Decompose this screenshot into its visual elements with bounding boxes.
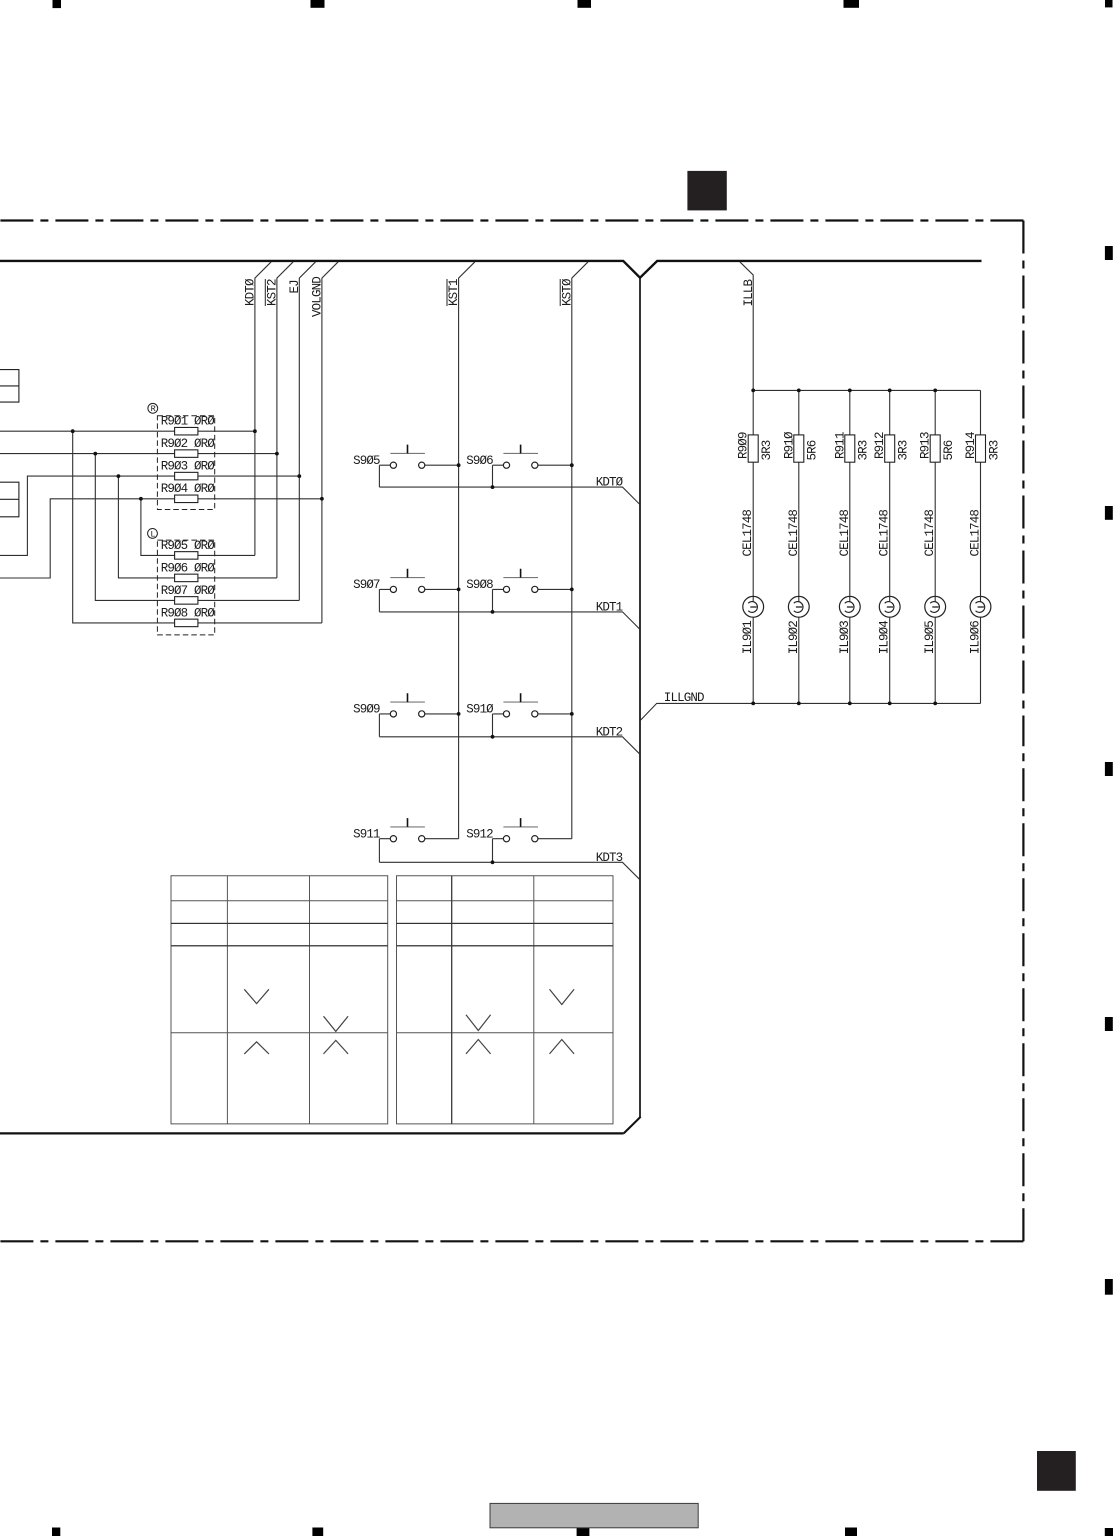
svg-text:3R3: 3R3 <box>760 440 774 460</box>
svg-text:5R6: 5R6 <box>806 440 820 460</box>
svg-text:S9Ø8: S9Ø8 <box>466 578 493 592</box>
svg-text:S911: S911 <box>353 827 380 841</box>
svg-text:KDT3: KDT3 <box>596 851 623 865</box>
svg-text:5R6: 5R6 <box>942 440 956 460</box>
svg-text:S9Ø6: S9Ø6 <box>466 454 493 468</box>
svg-text:CEL1748: CEL1748 <box>923 510 937 557</box>
svg-text:R9Ø8 ØRØ: R9Ø8 ØRØ <box>161 606 216 620</box>
svg-text:KDTØ: KDTØ <box>596 476 624 490</box>
svg-text:ILLGND: ILLGND <box>664 691 704 705</box>
svg-text:R914: R914 <box>964 432 978 459</box>
svg-text:CEL1748: CEL1748 <box>838 510 852 557</box>
svg-text:3R3: 3R3 <box>857 440 871 460</box>
svg-text:KST1: KST1 <box>447 279 461 306</box>
svg-text:R9Ø7 ØRØ: R9Ø7 ØRØ <box>161 584 216 598</box>
svg-text:IL9Ø6: IL9Ø6 <box>969 621 983 655</box>
svg-text:IL9Ø2: IL9Ø2 <box>787 621 801 655</box>
svg-text:R913: R913 <box>919 432 933 459</box>
svg-text:S9Ø5: S9Ø5 <box>353 454 380 468</box>
svg-text:S91Ø: S91Ø <box>466 703 494 717</box>
svg-text:R9Ø3 ØRØ: R9Ø3 ØRØ <box>161 460 216 474</box>
svg-text:CEL1748: CEL1748 <box>969 510 983 557</box>
svg-text:CEL1748: CEL1748 <box>741 510 755 557</box>
svg-text:R911: R911 <box>833 432 847 459</box>
svg-text:KDT1: KDT1 <box>596 600 623 614</box>
svg-text:IL9Ø3: IL9Ø3 <box>838 621 852 655</box>
svg-text:R9Ø9: R9Ø9 <box>737 432 751 459</box>
svg-text:KSTØ: KSTØ <box>560 278 574 306</box>
svg-text:3R3: 3R3 <box>897 440 911 460</box>
svg-text:KDTØ: KDTØ <box>244 278 258 306</box>
svg-text:R9Ø1 ØRØ: R9Ø1 ØRØ <box>161 415 216 429</box>
svg-text:R9Ø5 ØRØ: R9Ø5 ØRØ <box>161 539 216 553</box>
svg-text:IL9Ø5: IL9Ø5 <box>923 621 937 655</box>
svg-text:IL9Ø1: IL9Ø1 <box>741 621 755 655</box>
svg-text:R912: R912 <box>873 432 887 459</box>
svg-text:R9Ø2 ØRØ: R9Ø2 ØRØ <box>161 437 216 451</box>
svg-text:IL9Ø4: IL9Ø4 <box>878 621 892 655</box>
svg-text:S9Ø9: S9Ø9 <box>353 703 380 717</box>
svg-text:L: L <box>150 529 155 539</box>
svg-text:S912: S912 <box>466 827 493 841</box>
svg-text:3R3: 3R3 <box>987 440 1001 460</box>
svg-text:EJ: EJ <box>288 280 302 294</box>
svg-text:CEL1748: CEL1748 <box>878 510 892 557</box>
svg-text:S9Ø7: S9Ø7 <box>353 578 380 592</box>
svg-text:VOLGND: VOLGND <box>311 277 325 317</box>
svg-text:CEL1748: CEL1748 <box>787 510 801 557</box>
svg-text:KST2: KST2 <box>266 279 280 306</box>
svg-text:R91Ø: R91Ø <box>782 431 796 459</box>
svg-text:R9Ø4 ØRØ: R9Ø4 ØRØ <box>161 482 216 496</box>
svg-text:R9Ø6 ØRØ: R9Ø6 ØRØ <box>161 561 216 575</box>
svg-text:ILLB: ILLB <box>742 279 756 307</box>
svg-text:R: R <box>151 404 156 414</box>
svg-text:KDT2: KDT2 <box>596 725 623 739</box>
